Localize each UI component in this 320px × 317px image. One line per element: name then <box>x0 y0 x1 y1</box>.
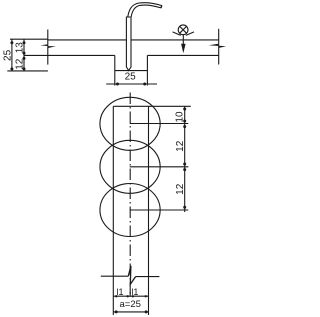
svg-text:l1: l1 <box>116 287 123 297</box>
svg-text:12: 12 <box>175 140 186 152</box>
svg-text:25: 25 <box>2 49 13 61</box>
svg-text:25: 25 <box>125 72 137 83</box>
svg-text:l1: l1 <box>131 287 138 297</box>
svg-text:13: 13 <box>14 42 25 54</box>
svg-text:a=25: a=25 <box>119 299 140 310</box>
svg-text:10: 10 <box>174 111 185 123</box>
svg-text:12: 12 <box>175 183 186 195</box>
svg-text:12: 12 <box>14 58 25 70</box>
